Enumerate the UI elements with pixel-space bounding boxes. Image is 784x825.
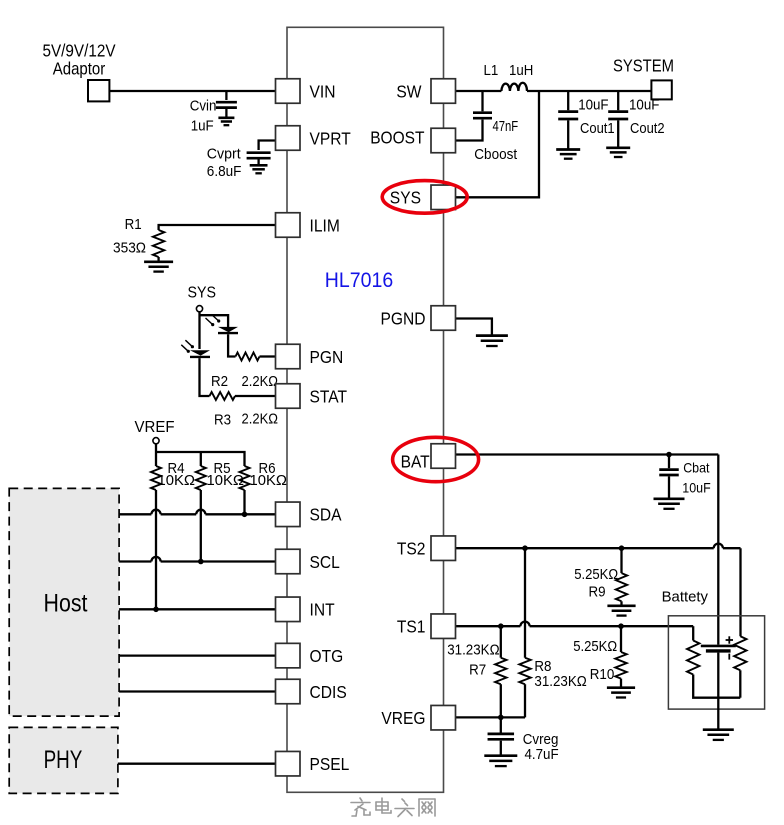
pin SDA <box>276 502 301 527</box>
svg-text:TS1: TS1 <box>397 617 426 637</box>
resistor R1 <box>153 230 164 257</box>
junction TS2-R9 <box>619 545 625 551</box>
wire R9 lead <box>620 548 622 573</box>
resistor R8 <box>519 658 530 685</box>
ground PGND <box>476 336 508 346</box>
label Cboost <box>474 146 518 163</box>
junction VREG-Cvreg <box>498 715 504 721</box>
label Cvreg <box>523 731 559 748</box>
svg-text:Host: Host <box>44 590 88 618</box>
wire BAT row <box>456 453 719 455</box>
svg-text:47nF: 47nF <box>493 118 519 135</box>
svg-text:R2: R2 <box>211 373 228 390</box>
wire VPRT stub <box>259 141 276 151</box>
watermark text <box>351 798 435 817</box>
junction R5-SCL <box>198 559 204 565</box>
svg-text:R7: R7 <box>469 661 486 678</box>
label pin ILIM <box>310 215 340 235</box>
wire L1 to SYSTEM pad <box>527 90 651 92</box>
label 4.7uF value of Cvreg <box>525 746 559 763</box>
wire Cvin to ground <box>225 109 227 118</box>
pin VREG <box>431 705 456 730</box>
wire TS2 into battery box <box>739 548 741 636</box>
label R6 <box>259 460 276 477</box>
wire adaptor to VIN <box>109 90 275 92</box>
svg-text:SYSTEM: SYSTEM <box>613 56 674 76</box>
label pin INT <box>310 600 335 620</box>
svg-text:10KΩ: 10KΩ <box>207 472 245 489</box>
ground Cbat <box>654 499 685 509</box>
pin PGN <box>276 344 301 369</box>
wire R8 to VREG line <box>524 684 526 717</box>
label 5.25K&#937; value of R9 <box>574 566 618 583</box>
wire RT1 to battery bottom <box>693 675 740 698</box>
label Cbat <box>683 459 709 475</box>
wire Cout1 to ground <box>567 120 569 149</box>
svg-text:INT: INT <box>310 600 335 620</box>
capacitor Cboost <box>473 113 492 119</box>
wire PSEL <box>118 763 276 765</box>
svg-text:BOOST: BOOST <box>370 128 425 148</box>
label 2.2K&#937; value of R3 <box>242 411 279 428</box>
label Cout1 <box>580 120 615 137</box>
svg-text:CDIS: CDIS <box>310 682 347 702</box>
label 5V/9V/12V <box>43 41 116 61</box>
svg-text:SW: SW <box>396 81 422 101</box>
wire SYS down <box>198 312 200 349</box>
svg-text:10KΩ: 10KΩ <box>158 472 196 489</box>
label pin TS2 <box>397 539 426 559</box>
label R9 <box>589 583 606 600</box>
label R10 <box>590 666 615 683</box>
LED D2 <box>190 350 210 357</box>
label Cvprt <box>207 145 242 162</box>
LED D1 arrows <box>206 314 221 326</box>
label pin VREG <box>381 708 425 728</box>
capacitor Cout2 <box>608 112 628 119</box>
ground R1 <box>144 262 173 272</box>
svg-text:Cvprt: Cvprt <box>207 145 242 162</box>
label 10K&#937; value of R6 <box>250 472 288 489</box>
capacitor Cvin <box>216 102 237 107</box>
label R8 <box>534 658 551 675</box>
capacitor Cout1 <box>558 112 578 119</box>
capacitor Cbat <box>659 470 679 475</box>
ground Cout2 <box>606 148 630 157</box>
svg-text:VIN: VIN <box>310 81 336 101</box>
wire VREF bus <box>156 452 245 466</box>
pin BAT <box>431 444 456 469</box>
svg-text:Adaptor: Adaptor <box>53 59 106 79</box>
resistor R10 <box>615 652 626 679</box>
battery cell BT1 <box>701 646 736 651</box>
svg-text:R10: R10 <box>590 666 615 683</box>
wire R2 to PGN pin <box>260 355 276 357</box>
label Host <box>44 590 88 618</box>
wire battery cell to bottom <box>717 653 719 698</box>
svg-text:Cout1: Cout1 <box>580 120 615 137</box>
ground Cvreg <box>484 756 517 766</box>
label 1uH value of L1 <box>509 62 533 79</box>
label 10K&#937; value of R5 <box>207 472 245 489</box>
wire R7 lead <box>500 626 502 658</box>
svg-text:ILIM: ILIM <box>310 215 340 235</box>
pin ILIM <box>276 213 301 238</box>
svg-text:5V/9V/12V: 5V/9V/12V <box>43 41 116 61</box>
wire TS1 to thermistor RT1 <box>692 626 694 640</box>
svg-text:Cvin: Cvin <box>190 97 217 114</box>
label pin PGND <box>381 308 426 328</box>
label R1 <box>125 216 142 233</box>
label 10uF value of Cbat <box>682 480 710 496</box>
svg-text:OTG: OTG <box>310 646 344 666</box>
IC body HL7016 outline <box>287 27 444 792</box>
red ellipse highlight BAT pin <box>393 437 479 481</box>
wire R10 to ground <box>620 679 622 688</box>
svg-text:2.2KΩ: 2.2KΩ <box>242 411 279 428</box>
pin TS1 <box>431 614 456 639</box>
label VREF net <box>135 419 175 436</box>
wire OTG <box>119 654 275 656</box>
wire SDA with hops <box>119 510 275 515</box>
resistor R5 <box>196 466 206 490</box>
label 47nF value of Cboost <box>493 118 519 135</box>
svg-text:BAT: BAT <box>401 452 430 472</box>
battery box <box>668 616 764 709</box>
label 6.8uF value of Cvprt <box>207 163 242 180</box>
svg-text:1uH: 1uH <box>509 62 533 79</box>
wire LED D2 to R3 <box>200 358 210 396</box>
label pin PSEL <box>310 754 350 774</box>
svg-text:Cboost: Cboost <box>474 146 518 163</box>
wire TS2 row with hop <box>456 544 741 549</box>
pin INT <box>276 597 301 622</box>
wire Cvprt to ground <box>257 160 259 166</box>
svg-text:SCL: SCL <box>310 552 341 572</box>
svg-text:L1: L1 <box>484 62 499 79</box>
label SYSTEM <box>613 56 674 76</box>
label pin BAT <box>401 452 430 472</box>
svg-text:Cout2: Cout2 <box>630 120 665 137</box>
label plus terminal <box>726 636 733 643</box>
wire R1 to ground <box>157 257 159 262</box>
wire SCL with hop <box>119 557 275 562</box>
svg-text:VPRT: VPRT <box>310 128 352 148</box>
pin TS2 <box>431 536 456 561</box>
label 1uF value of Cvin <box>191 118 214 135</box>
label pin TS1 <box>397 617 426 637</box>
wire R5 to SCL line <box>200 490 202 562</box>
capacitor Cout2 stub <box>617 91 619 110</box>
wire Cvreg stub <box>500 717 502 732</box>
pin BOOST <box>431 128 456 153</box>
svg-text:5.25KΩ: 5.25KΩ <box>574 566 618 583</box>
svg-text:2.2KΩ: 2.2KΩ <box>242 373 279 390</box>
junction TS1-R7 <box>498 623 504 629</box>
pin VPRT <box>276 126 301 151</box>
wire VREF down <box>155 444 157 466</box>
wire R10 lead <box>620 626 622 652</box>
label pin VIN <box>310 81 336 101</box>
svg-text:PGND: PGND <box>381 308 426 328</box>
ground R10 <box>607 688 635 698</box>
wire CDIS <box>119 690 275 692</box>
wire Cboost to BOOST pin <box>456 120 483 141</box>
svg-text:4.7uF: 4.7uF <box>525 746 559 763</box>
svg-text:31.23KΩ: 31.23KΩ <box>534 673 586 690</box>
label pin OTG <box>310 646 344 666</box>
svg-text:1uF: 1uF <box>191 118 214 135</box>
LED D1 <box>218 327 238 333</box>
ground Cout1 <box>556 150 580 159</box>
svg-text:10uF: 10uF <box>578 97 608 114</box>
resistor R7 <box>495 658 506 685</box>
junction TS1-R10 <box>618 623 624 629</box>
label 10uF value of Cout1 <box>578 97 608 114</box>
wire R4 to INT line <box>155 490 157 609</box>
label pin SDA <box>310 505 342 525</box>
LED D2 arrows <box>181 340 194 353</box>
junction R4-INT <box>153 607 159 613</box>
label Cvin <box>190 97 217 114</box>
capacitor Cvprt <box>247 153 271 159</box>
wire Cvreg to ground <box>500 741 502 756</box>
ground battery <box>703 730 734 740</box>
svg-text:HL7016: HL7016 <box>325 269 393 292</box>
svg-text:R9: R9 <box>589 583 606 600</box>
ground Cvin <box>218 118 234 125</box>
inductor L1 <box>501 83 527 91</box>
svg-text:PSEL: PSEL <box>310 754 350 774</box>
svg-text:R1: R1 <box>125 216 142 233</box>
svg-text:PGN: PGN <box>310 347 344 367</box>
resistor R4 <box>151 466 161 490</box>
red ellipse highlight SYS pin <box>382 181 467 214</box>
svg-text:VREG: VREG <box>381 708 425 728</box>
label 2.2K&#937; value of R2 <box>242 373 279 390</box>
svg-text:Battety: Battety <box>662 589 709 605</box>
wire R9 to ground <box>620 601 622 606</box>
pin PSEL <box>276 751 301 776</box>
pin SW <box>431 79 456 104</box>
resistor R3 <box>210 392 236 400</box>
pin PGND <box>431 306 456 331</box>
label pin VPRT <box>310 128 352 148</box>
SYSTEM terminal pad <box>651 80 671 99</box>
label L1 <box>484 62 499 79</box>
label R5 <box>214 460 231 477</box>
label Adaptor <box>53 59 106 79</box>
adaptor terminal pad <box>88 80 109 101</box>
svg-text:5.25KΩ: 5.25KΩ <box>573 638 617 655</box>
label pin STAT <box>310 386 348 406</box>
terminal SYS circle <box>196 306 202 312</box>
svg-text:31.23KΩ: 31.23KΩ <box>447 641 499 658</box>
label 5.25K&#937; value of R10 <box>573 638 617 655</box>
PHY box <box>9 727 118 793</box>
resistor R9 <box>616 573 627 601</box>
thermistor RT2 right <box>734 636 746 670</box>
label HL7016 part number <box>325 269 393 292</box>
pin STAT <box>276 384 301 409</box>
wire Cbat to ground <box>668 476 670 498</box>
wire VREG row <box>456 716 526 718</box>
wire branch to LED D1 <box>200 315 229 327</box>
wire BAT down to battery <box>717 455 719 645</box>
wire SW to L1 <box>456 90 502 92</box>
label pin PGN <box>310 347 344 367</box>
junction BAT-Cbat <box>666 452 672 458</box>
svg-text:PHY: PHY <box>44 746 83 774</box>
resistor R2 <box>236 353 260 361</box>
junction TS2-R8 <box>522 545 528 551</box>
pin VIN <box>276 79 301 104</box>
label pin SCL <box>310 552 341 572</box>
label pin SYS <box>390 187 421 207</box>
wire SYS branch <box>456 91 540 197</box>
terminal VREF circle <box>153 438 159 444</box>
label 31.23K&#937; value of R8 <box>534 673 586 690</box>
ground R9 <box>607 606 635 616</box>
label 10K&#937; value of R4 <box>158 472 196 489</box>
resistor R6 <box>240 466 250 490</box>
svg-text:353Ω: 353Ω <box>113 240 146 257</box>
svg-text:SYS: SYS <box>188 285 217 302</box>
thermistor RT1 left <box>687 641 699 675</box>
capacitor Cvreg <box>488 734 515 739</box>
label R3 <box>214 412 231 429</box>
wire PGND to ground <box>456 319 492 336</box>
wire Cbat stub <box>668 455 670 469</box>
svg-text:6.8uF: 6.8uF <box>207 163 242 180</box>
wire Cout2 to ground <box>617 120 619 147</box>
wire R3 to STAT pin <box>235 395 276 397</box>
junction R6-SDA <box>242 512 248 518</box>
wire R6 to SDA line <box>243 490 245 514</box>
label Battety <box>662 589 709 605</box>
wire TS1 row with hop <box>456 622 694 627</box>
label pin BOOST <box>370 128 425 148</box>
wire R5 top lead <box>200 452 202 466</box>
wire Cvin stub <box>225 91 227 100</box>
pin SYS <box>431 185 456 210</box>
wire R7 to VREG line <box>500 684 502 717</box>
pin OTG <box>276 643 301 668</box>
svg-text:SDA: SDA <box>310 505 342 525</box>
wire ILIM to R1 <box>159 225 276 230</box>
label pin SW <box>396 81 422 101</box>
label 31.23K&#937; value of R7 <box>447 641 499 658</box>
capacitor Cout1 stub <box>567 91 569 110</box>
svg-text:10uF: 10uF <box>682 480 710 496</box>
pin SCL <box>276 549 301 574</box>
svg-text:SYS: SYS <box>390 187 421 207</box>
wire INT <box>119 608 275 610</box>
label 10uF value of Cout2 <box>629 97 659 114</box>
wire LED D1 to R2 <box>228 334 235 356</box>
label PHY <box>44 746 83 774</box>
label SYS net <box>188 285 217 302</box>
label R7 <box>469 661 486 678</box>
svg-text:TS2: TS2 <box>397 539 426 559</box>
svg-text:Cbat: Cbat <box>683 459 709 475</box>
svg-text:R3: R3 <box>214 412 231 429</box>
wire RT2 bottom lead <box>739 670 741 697</box>
label pin CDIS <box>310 682 347 702</box>
svg-text:VREF: VREF <box>135 419 175 436</box>
label Cout2 <box>630 120 665 137</box>
label minus terminal <box>728 654 730 660</box>
ground Cvprt <box>250 165 268 173</box>
label 353&#937; value of R1 <box>113 240 146 257</box>
label R2 <box>211 373 228 390</box>
wire battery to ground <box>717 698 719 730</box>
svg-text:STAT: STAT <box>310 386 348 406</box>
wire Cboost branch <box>481 91 483 111</box>
label R4 <box>168 460 185 477</box>
Host box <box>9 488 119 716</box>
wire TS2 to R8 <box>524 548 526 658</box>
svg-text:10KΩ: 10KΩ <box>250 472 288 489</box>
pin CDIS <box>276 679 301 704</box>
